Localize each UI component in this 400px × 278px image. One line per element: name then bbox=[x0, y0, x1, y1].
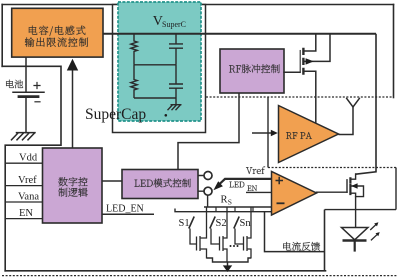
arrowhead selector bbox=[213, 181, 223, 190]
block: LED mode control bbox=[122, 170, 198, 199]
svg-text:SuperC: SuperC bbox=[162, 20, 186, 29]
transistor Q1 gate bar bbox=[299, 51, 301, 73]
transistor Sn bbox=[235, 207, 251, 259]
wire frame bottom bbox=[5, 270, 325, 272]
LED D1 bbox=[342, 228, 368, 240]
ground arrow bbox=[227, 262, 229, 266]
label LED bbox=[229, 182, 244, 188]
svg-text:S2: S2 bbox=[216, 218, 227, 229]
wire dashed chip boundary upper bbox=[206, 96, 394, 98]
capacitor C-a top right in SuperCap bbox=[169, 34, 183, 65]
svg-text:R: R bbox=[221, 195, 228, 206]
SuperCap teal box bbox=[118, 2, 201, 121]
resistor R-a top left in SuperCap bbox=[131, 34, 137, 65]
svg-text:S1: S1 bbox=[179, 218, 190, 229]
transistor Q2 gate bar bbox=[346, 180, 348, 192]
op-amp U1 bbox=[272, 172, 317, 216]
label EN near op-amp bbox=[247, 186, 257, 191]
wire op-amp output to Q2 gate bbox=[317, 191, 348, 193]
svg-text:S: S bbox=[228, 198, 232, 207]
transistor S1 bbox=[190, 207, 207, 259]
transistor Q2 body arrow bbox=[351, 183, 357, 188]
transistor Q1 source down to RF PA bbox=[303, 71, 315, 124]
wire bottom rail in SuperCap bbox=[134, 97, 176, 99]
label Vref near op-amp bbox=[246, 167, 265, 174]
switch contact top bbox=[204, 172, 212, 180]
node VSuperC rail bbox=[103, 33, 376, 35]
pin Vdd bbox=[6, 162, 43, 164]
battery minus sign bbox=[35, 101, 40, 103]
switch contact bottom bbox=[204, 187, 212, 195]
battery plus sign bbox=[34, 83, 40, 89]
resistor R-b bottom left in SuperCap bbox=[131, 65, 137, 98]
transistor S2 bbox=[211, 207, 227, 263]
capacitor C-b bottom right in SuperCap bbox=[169, 65, 183, 98]
wire current feedback bbox=[265, 212, 325, 252]
LED arrows bbox=[370, 224, 378, 240]
pin Vana bbox=[6, 201, 43, 203]
wire LED_EN stub bbox=[102, 213, 154, 215]
wire RF PA output bbox=[339, 107, 354, 135]
transistor Q1 body wire bbox=[303, 34, 330, 62]
wire Rs rail lower bbox=[175, 209, 272, 212]
pin EN bbox=[6, 218, 43, 220]
wire switch source rail bbox=[207, 258, 252, 262]
wire EN into op-amp bbox=[246, 191, 272, 193]
pin Vref bbox=[6, 185, 43, 187]
ground in SuperCap bbox=[168, 98, 182, 110]
wire rail ticks bbox=[216, 207, 253, 212]
battery cell plates bbox=[13, 91, 44, 93]
wire right return vertical bbox=[324, 210, 326, 271]
transistor Q2 body wire bbox=[351, 186, 364, 197]
wire LED cathode down bbox=[354, 241, 356, 252]
wire frame top bbox=[2, 4, 393, 6]
label dots bbox=[230, 245, 232, 247]
capacitor bank outer box bbox=[113, 5, 206, 133]
svg-text:SuperCap: SuperCap bbox=[85, 106, 146, 123]
svg-text:Vref: Vref bbox=[18, 175, 37, 186]
wire mid rail in SuperCap bbox=[134, 64, 176, 66]
svg-text:Vdd: Vdd bbox=[19, 153, 38, 164]
svg-text:Vana: Vana bbox=[18, 192, 39, 203]
wire battery to ground bbox=[25, 97, 27, 133]
LED cathode bar bbox=[343, 239, 367, 241]
op-amp plus bbox=[276, 177, 284, 184]
wire contact down to Rs rail bbox=[207, 195, 209, 207]
transistor Q1 drain to VSuperC rail bbox=[303, 34, 315, 51]
wire LED-mode box up to RF pulse box bbox=[178, 93, 239, 170]
wire RF box to Q1 gate bbox=[284, 71, 300, 73]
transistor Q1 channel segments bbox=[302, 49, 304, 74]
wire orange box to battery bbox=[25, 58, 27, 92]
wire frame left upper bbox=[1, 5, 3, 67]
wire supply rail jog bbox=[2, 66, 61, 270]
wire digital to LED-mode box bbox=[102, 180, 122, 182]
wire dashed chip boundary mid bbox=[268, 167, 397, 169]
wire RF input arrow bbox=[252, 132, 272, 134]
block: RF pulse control bbox=[220, 49, 284, 93]
wire Vref select to op-amp plus input bbox=[219, 179, 272, 185]
block: capacitive/inductive output current-limit control bbox=[12, 8, 103, 57]
antenna bbox=[346, 98, 360, 107]
label current feedback bbox=[283, 242, 320, 251]
block: digital control logic bbox=[43, 148, 103, 223]
transistor Q2 channel segments bbox=[349, 178, 351, 194]
wire LED-mode to contacts bbox=[198, 176, 204, 192]
wire vertical at x268 bbox=[267, 97, 269, 168]
wire source node rail right bbox=[325, 209, 397, 211]
op-amp minus bbox=[277, 202, 285, 204]
amplifier RF PA bbox=[279, 106, 339, 163]
svg-text:EN: EN bbox=[19, 208, 33, 219]
switch Sn label and slash bbox=[234, 217, 239, 229]
wire Rs rail upper bbox=[204, 206, 272, 208]
ground battery bbox=[12, 133, 36, 140]
label battery bbox=[6, 80, 23, 88]
svg-text:LED_EN: LED_EN bbox=[106, 204, 144, 215]
transistor Q2 source stub to LED bbox=[350, 193, 355, 227]
transistor Q1 body arrow bbox=[306, 58, 314, 64]
dot decoration bbox=[165, 114, 168, 117]
transistor Q2 drain stub bbox=[350, 174, 355, 179]
wire dashed bottom boundary bbox=[2, 275, 398, 277]
wire frame right bbox=[393, 5, 395, 98]
wire VSuperC rail corner down right side bbox=[356, 34, 376, 175]
svg-text:Sn: Sn bbox=[240, 218, 252, 229]
wire right vertical from dashed line bbox=[395, 168, 397, 210]
wire control arrow digital to orange box bbox=[72, 68, 74, 148]
switch S2 label and slash bbox=[210, 217, 215, 229]
